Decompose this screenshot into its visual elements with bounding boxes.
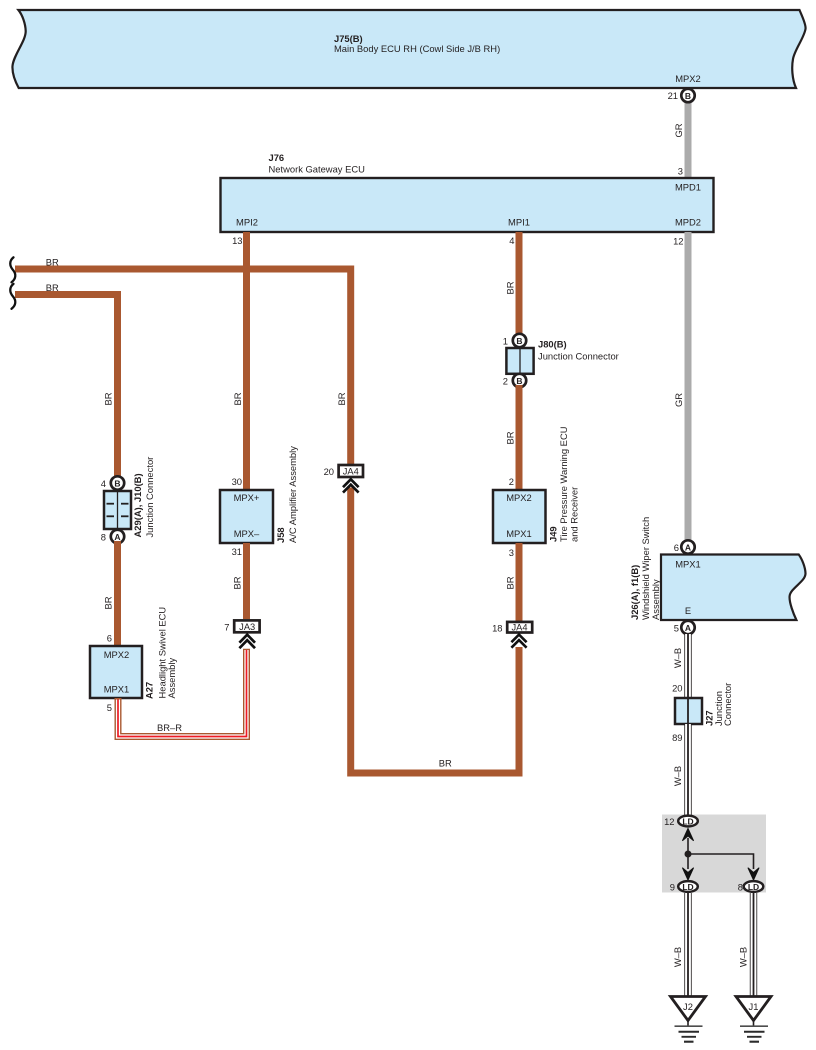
svg-text:Assembly: Assembly xyxy=(650,579,661,620)
connector circle B pin 4 xyxy=(111,476,124,489)
svg-text:and Receiver: and Receiver xyxy=(569,487,580,542)
svg-text:6: 6 xyxy=(107,633,112,644)
svg-text:4: 4 xyxy=(101,478,106,489)
connector JA4 pin 20 xyxy=(339,465,363,477)
svg-text:BR: BR xyxy=(232,392,243,405)
wire W-B wiper switch to J27 xyxy=(684,634,691,698)
svg-text:A/C Amplifier Assembly: A/C Amplifier Assembly xyxy=(287,446,298,543)
wire GR J75 to J76 xyxy=(685,96,692,178)
svg-text:B: B xyxy=(685,91,691,101)
wire BR J58 to JA3 xyxy=(243,543,250,619)
svg-text:MPX–: MPX– xyxy=(234,528,260,539)
svg-text:BR: BR xyxy=(46,282,59,293)
svg-text:JA4: JA4 xyxy=(343,467,359,477)
internal link lines in shield area xyxy=(687,838,689,869)
svg-text:BR: BR xyxy=(103,392,114,405)
svg-text:2: 2 xyxy=(509,476,514,487)
svg-text:Tire Pressure Warning ECU: Tire Pressure Warning ECU xyxy=(558,426,569,542)
svg-text:Main Body ECU RH (Cowl Side J/: Main Body ECU RH (Cowl Side J/B RH) xyxy=(334,43,500,54)
svg-text:A: A xyxy=(685,623,691,633)
svg-text:J80(B): J80(B) xyxy=(538,339,567,350)
ground J2 xyxy=(671,997,706,1042)
svg-text:2: 2 xyxy=(503,376,508,387)
svg-text:3: 3 xyxy=(678,166,683,177)
junction dot xyxy=(685,851,692,858)
arrow up to LD12 xyxy=(682,829,693,841)
arrow chevrons below JA4-18 xyxy=(511,635,526,648)
wire GR J76 MPD2 to windshield wiper switch xyxy=(685,232,692,541)
wire break symbol 2 xyxy=(10,284,15,309)
svg-text:7: 7 xyxy=(224,622,229,633)
svg-text:A: A xyxy=(685,542,691,552)
svg-text:LD: LD xyxy=(682,817,693,827)
shield area gray background xyxy=(662,815,766,893)
svg-text:W–B: W–B xyxy=(672,947,683,967)
svg-text:A27: A27 xyxy=(144,682,155,699)
arrow chevrons below JA3 xyxy=(239,635,255,649)
svg-text:BR: BR xyxy=(46,257,59,268)
svg-text:30: 30 xyxy=(232,476,242,487)
svg-text:MPI1: MPI1 xyxy=(508,217,530,228)
svg-text:LD: LD xyxy=(682,882,693,892)
svg-text:BR: BR xyxy=(439,758,452,769)
svg-text:Junction Connector: Junction Connector xyxy=(538,351,619,362)
svg-text:13: 13 xyxy=(232,235,242,246)
svg-text:5: 5 xyxy=(674,623,679,634)
wire BR-R A27 to JA3 xyxy=(118,649,247,737)
svg-text:JA3: JA3 xyxy=(239,622,255,632)
wire W-B LD8 to ground J1 xyxy=(750,893,757,997)
svg-text:9: 9 xyxy=(670,882,675,893)
svg-text:20: 20 xyxy=(672,683,682,694)
svg-text:BR: BR xyxy=(232,576,243,589)
svg-text:BR: BR xyxy=(505,431,516,444)
svg-text:MPX2: MPX2 xyxy=(104,649,130,660)
svg-text:BR: BR xyxy=(103,596,114,609)
svg-text:BR: BR xyxy=(505,576,516,589)
svg-text:5: 5 xyxy=(107,702,112,713)
svg-text:MPX2: MPX2 xyxy=(675,73,701,84)
svg-text:12: 12 xyxy=(673,236,683,247)
svg-text:J58: J58 xyxy=(275,527,286,543)
svg-text:89: 89 xyxy=(672,732,682,743)
ground J1 xyxy=(736,997,771,1042)
svg-text:BR: BR xyxy=(505,281,516,294)
ECU box A27 Headlight Swivel ECU Assembly xyxy=(90,646,142,698)
svg-text:E: E xyxy=(685,605,691,616)
svg-text:W–B: W–B xyxy=(672,648,683,668)
svg-text:MPX1: MPX1 xyxy=(104,684,130,695)
svg-text:3: 3 xyxy=(509,547,514,558)
svg-text:MPX+: MPX+ xyxy=(234,492,260,503)
svg-text:A: A xyxy=(114,532,120,542)
svg-text:B: B xyxy=(516,336,522,346)
connector circle B pin 2 xyxy=(513,374,526,387)
wire BR horizontal 1 to JA4 xyxy=(15,269,351,464)
ECU box J49 Tire Pressure Warning ECU xyxy=(493,490,546,543)
svg-text:8: 8 xyxy=(738,882,743,893)
arrow down to LD8 xyxy=(748,868,759,880)
connector JA4 pin 18 xyxy=(507,622,532,633)
svg-text:W–B: W–B xyxy=(672,766,683,786)
svg-text:B: B xyxy=(114,478,120,488)
ECU box J76 Network Gateway ECU xyxy=(221,178,714,232)
svg-text:JA4: JA4 xyxy=(511,622,527,632)
svg-text:6: 6 xyxy=(674,542,679,553)
svg-text:A29(A), J10(B): A29(A), J10(B) xyxy=(132,473,143,537)
svg-text:J2: J2 xyxy=(683,1001,693,1012)
connector oval LD pin 12 xyxy=(678,816,698,827)
J80 body xyxy=(506,348,533,374)
connector circle B pin 1 xyxy=(513,334,526,347)
wire BR J76 MPI1 down to J80 xyxy=(516,232,523,336)
svg-text:21: 21 xyxy=(668,90,678,101)
arrow chevrons below JA4-20 xyxy=(343,479,359,492)
svg-text:Junction Connector: Junction Connector xyxy=(144,457,155,538)
svg-text:W–B: W–B xyxy=(738,947,749,967)
svg-text:MPD2: MPD2 xyxy=(675,217,701,228)
ECU box J75(B) Main Body ECU RH xyxy=(12,10,805,88)
ECU box J26(A) f1(B) Windshield Wiper Switch Assembly xyxy=(661,555,806,621)
svg-text:18: 18 xyxy=(492,623,502,634)
svg-text:Assembly: Assembly xyxy=(166,658,177,699)
wire W-B LD9 to ground J2 xyxy=(684,893,691,997)
svg-text:BR–R: BR–R xyxy=(157,722,182,733)
svg-text:MPX2: MPX2 xyxy=(506,492,532,503)
svg-text:4: 4 xyxy=(509,235,514,246)
A29 body xyxy=(104,491,131,529)
svg-text:BR: BR xyxy=(336,392,347,405)
connector circle A pin 5 xyxy=(681,621,694,634)
svg-text:1: 1 xyxy=(503,336,508,347)
wire BR U shape JA4-20 to JA4-18 xyxy=(351,488,519,774)
svg-text:12: 12 xyxy=(664,816,674,827)
wire BR A29 to A27 xyxy=(114,541,121,646)
svg-text:MPX1: MPX1 xyxy=(506,528,532,539)
svg-text:GR: GR xyxy=(673,393,684,407)
connector circle A pin 8 xyxy=(111,530,124,543)
svg-text:J76: J76 xyxy=(269,152,285,163)
svg-text:31: 31 xyxy=(232,546,242,557)
svg-text:B: B xyxy=(516,376,522,386)
svg-text:MPD1: MPD1 xyxy=(675,182,701,193)
svg-text:J1: J1 xyxy=(749,1001,759,1012)
connector oval LD pin 8 xyxy=(744,881,764,892)
wire BR horizontal 2 to junction connector A29 xyxy=(15,295,118,480)
svg-text:Connector: Connector xyxy=(722,683,733,726)
connector oval LD pin 9 xyxy=(678,881,698,892)
svg-text:Network Gateway ECU: Network Gateway ECU xyxy=(269,164,366,175)
wire BR J80 to J49 xyxy=(516,385,523,490)
svg-text:MPI2: MPI2 xyxy=(236,217,258,228)
svg-text:GR: GR xyxy=(673,123,684,137)
junction connector J27 xyxy=(675,698,702,724)
wire break symbol 1 xyxy=(10,257,15,282)
svg-text:8: 8 xyxy=(101,532,106,543)
svg-text:J26(A), f1(B): J26(A), f1(B) xyxy=(629,565,640,620)
svg-text:MPX1: MPX1 xyxy=(675,559,701,570)
wire W-B J27 to LD12 xyxy=(684,724,691,816)
svg-text:LD: LD xyxy=(748,882,759,892)
wire BR J76 MPI2 down to J58 xyxy=(243,232,250,490)
connector circle A pin 6 xyxy=(681,540,694,553)
svg-text:J49: J49 xyxy=(548,526,559,542)
arrow down to LD9 xyxy=(682,868,693,880)
wire BR J49 to JA4 pin 18 xyxy=(516,543,523,621)
svg-text:20: 20 xyxy=(324,466,334,477)
connector circle B pin 21 xyxy=(681,89,694,102)
connector JA3 pin 7 xyxy=(234,620,259,632)
